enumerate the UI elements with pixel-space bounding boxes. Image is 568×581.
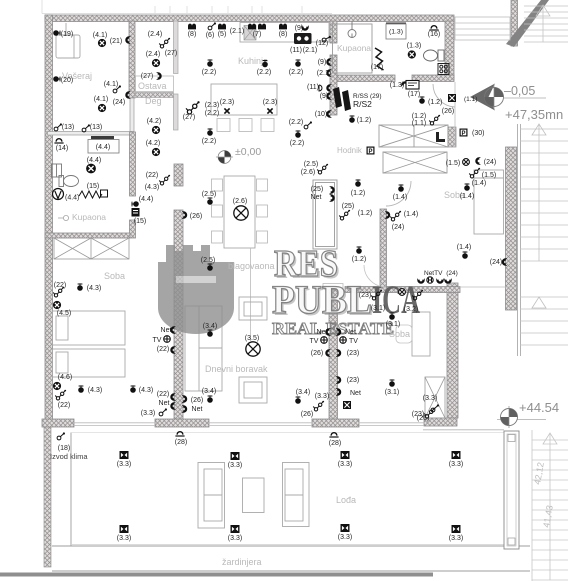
svg-text:Net: Net: [159, 400, 170, 407]
washer veseraj: [56, 23, 80, 58]
svg-text:(1.2): (1.2): [352, 256, 366, 263]
socket (21): [126, 37, 131, 44]
svg-text:(3.3): (3.3): [228, 535, 242, 542]
svg-text:(3.3): (3.3): [338, 534, 352, 541]
svg-text:(3.2): (3.2): [404, 306, 418, 313]
socket (19): [53, 30, 60, 36]
stove symbol (5): [218, 24, 226, 30]
entrance box (1.1): [448, 94, 456, 102]
svg-text:(28): (28): [175, 439, 187, 446]
svg-text:(3.4): (3.4): [202, 388, 216, 395]
svg-text:Dnevni boravak: Dnevni boravak: [205, 364, 268, 374]
svg-text:(26): (26): [301, 411, 313, 418]
kitchen dark sink: [294, 33, 312, 44]
stairs right middle treads: [520, 124, 568, 345]
wall hodnik east: [380, 209, 387, 287]
shower top bath: [333, 22, 373, 74]
svg-text:TV: TV: [153, 337, 162, 344]
svg-text:(25): (25): [342, 203, 354, 210]
loggia left boundary: [70, 433, 72, 547]
svg-text:(4.4): (4.4): [65, 195, 79, 202]
stairs top-right treads: [524, 5, 568, 42]
svg-text:NetTV: NetTV: [424, 270, 443, 277]
living armchair upper: [239, 297, 267, 320]
svg-text:(1.5): (1.5): [446, 160, 460, 167]
svg-text:PUBL: PUBL: [272, 277, 372, 322]
stairs bottom-right: [532, 430, 568, 581]
hodnik wardrobe: [313, 180, 337, 249]
svg-text:Hodnik: Hodnik: [337, 146, 363, 155]
svg-text:(1.4): (1.4): [472, 180, 486, 187]
svg-text:(2.2): (2.2): [202, 69, 216, 76]
loggia light (3.3) r2c3: [341, 524, 350, 532]
svg-text:(4.1): (4.1): [104, 81, 118, 88]
ventilator V left bath: [53, 189, 64, 200]
svg-text:(8): (8): [188, 31, 197, 38]
svg-text:–0,05: –0,05: [504, 84, 535, 98]
balcony sliding door lines: [74, 423, 424, 426]
socket (3.4) living: [207, 329, 213, 336]
svg-text:(2.2): (2.2): [205, 110, 219, 117]
socket (3.1) lower: [389, 379, 395, 386]
socket (1.2) hodnik lower: [356, 246, 362, 253]
svg-text:(15): (15): [134, 218, 146, 225]
wall thin continuation: [130, 98, 134, 132]
svg-text:(27): (27): [165, 50, 177, 57]
wall central upper (soba/dining): [174, 164, 183, 186]
svg-text:Net: Net: [350, 390, 361, 397]
lamp (2.6) dining: [234, 206, 248, 220]
svg-text:Lođa: Lođa: [336, 495, 356, 505]
dining chairs: [212, 179, 268, 243]
loggia sofa right: [283, 463, 310, 527]
wall veseraj/kupaona divider: [48, 132, 132, 136]
svg-text:žardinjera: žardinjera: [222, 557, 262, 567]
socket (3.1) upper: [389, 312, 395, 319]
wall stairwell strip: [511, 0, 518, 46]
svg-text:(2.2): (2.2): [289, 69, 303, 76]
svg-text:(2.5): (2.5): [202, 191, 216, 198]
socket (2.2) island: [207, 128, 213, 135]
svg-text:(3.1): (3.1): [371, 305, 385, 312]
svg-text:Net: Net: [192, 406, 203, 413]
svg-text:(19): (19): [61, 31, 73, 38]
washer top bath: [438, 64, 449, 75]
svg-text:Deg: Deg: [145, 96, 162, 106]
svg-text:Ostava: Ostava: [138, 81, 167, 91]
svg-text:(2.1): (2.1): [303, 47, 317, 54]
socket (2.5) dining upper: [207, 197, 213, 204]
socket (2.5) dining lower: [207, 263, 213, 270]
stove symbols (7): [248, 24, 256, 30]
svg-text:(3.1): (3.1): [386, 321, 400, 328]
switch (18) klima: [57, 432, 65, 440]
switch (13) right: [82, 124, 90, 131]
loggia light (3.3) r1c4: [452, 451, 461, 459]
svg-text:(2.5): (2.5): [201, 257, 215, 264]
island stools: [217, 119, 274, 132]
kitchen counter: [240, 23, 329, 43]
shaft box lower: [383, 152, 447, 173]
shaft black notch: [436, 132, 445, 142]
svg-text:(13): (13): [62, 124, 74, 131]
svg-text:ICA: ICA: [372, 277, 420, 322]
terrace edge line: [458, 286, 517, 288]
svg-text:(3.3): (3.3): [141, 410, 155, 417]
svg-text:(23): (23): [347, 350, 359, 357]
watermark castle icon: [158, 245, 234, 334]
svg-text:(2.2): (2.2): [202, 138, 216, 145]
svg-text:(7): (7): [253, 31, 262, 38]
wall top-right bathroom bottom: [337, 75, 395, 82]
svg-text:(20): (20): [61, 77, 73, 84]
box (1.1) living: [343, 401, 351, 409]
heater box (4.4) veseraj: [88, 136, 119, 153]
svg-text:(17): (17): [408, 91, 420, 98]
svg-text:(26): (26): [190, 213, 202, 220]
svg-text:(2.2): (2.2): [257, 69, 271, 76]
bell (14): [54, 138, 63, 143]
svg-text:Izvod klima: Izvod klima: [50, 452, 88, 461]
svg-text:Net: Net: [345, 329, 356, 336]
living sofa: [185, 306, 222, 391]
svg-text:(1.2): (1.2): [351, 190, 365, 197]
svg-text:(3.3): (3.3): [338, 461, 352, 468]
svg-text:(1.4): (1.4): [460, 193, 474, 200]
svg-text:(26): (26): [311, 350, 323, 357]
svg-text:(3.3): (3.3): [449, 535, 463, 542]
wall left lower thin: [44, 422, 51, 567]
stove symbol (8) left: [188, 24, 196, 30]
desk right soba: [412, 312, 430, 356]
socket (2.2) lowest: [295, 130, 301, 137]
bed left 1: [53, 311, 126, 345]
svg-text:Soba: Soba: [104, 271, 125, 281]
svg-text:(1.1): (1.1): [464, 96, 477, 103]
svg-text:(8): (8): [279, 31, 288, 38]
loggia light (3.3) r2c1: [120, 525, 129, 533]
room labels: [62, 43, 465, 567]
distribution board R/SS parallelogram 1: [333, 87, 342, 108]
wall top outer: [45, 15, 454, 22]
svg-text:(4.3): (4.3): [88, 387, 102, 394]
svg-text:(14): (14): [56, 145, 68, 152]
svg-text:(3.5): (3.5): [245, 335, 259, 342]
svg-text:(23): (23): [359, 292, 371, 299]
lamp (2.4): [152, 59, 160, 67]
svg-text:(2.6): (2.6): [301, 169, 315, 176]
wall kitchen/bath divider vertical: [330, 21, 337, 43]
svg-text:(22): (22): [157, 391, 169, 398]
wall bottom-left foot: [42, 419, 74, 427]
loggia light (3.3) r2c4: [452, 525, 461, 533]
svg-text:(4.1): (4.1): [94, 96, 108, 103]
svg-text:(4.3): (4.3): [145, 184, 159, 191]
kitchen sink hatch: [244, 26, 256, 41]
x-mark (2.3) left: [224, 108, 229, 113]
socket (1.2) rs2: [349, 115, 355, 122]
svg-text:(24): (24): [113, 99, 125, 106]
svg-text:(28): (28): [329, 440, 341, 447]
switch cluster island: [186, 101, 200, 114]
socket (4.3) left: [78, 385, 84, 392]
svg-text:(4.4): (4.4): [96, 144, 110, 151]
svg-text:(4.4): (4.4): [87, 157, 101, 164]
svg-text:(22): (22): [54, 282, 66, 289]
svg-text:(22): (22): [58, 402, 70, 409]
svg-text:(1.5): (1.5): [482, 172, 496, 179]
svg-text:(6): (6): [206, 32, 215, 39]
svg-text:TV: TV: [310, 338, 319, 345]
wall kupaona right upper: [130, 132, 136, 196]
entrance arrow: [470, 84, 495, 111]
(1.3) label box top bath: [386, 23, 406, 40]
svg-text:(3.3): (3.3): [423, 395, 437, 402]
svg-text:(17): (17): [371, 64, 383, 71]
svg-text:(4.5): (4.5): [57, 310, 71, 317]
elevation circle 0,00: [216, 151, 233, 164]
svg-text:(24): (24): [484, 159, 496, 166]
x-mark (2.3) right: [267, 108, 272, 113]
bell (28) right: [329, 432, 338, 437]
lamp (4.5): [53, 301, 61, 309]
socket (20): [53, 76, 60, 82]
wall bedroom right: [447, 283, 458, 418]
switch cluster (1.5): [469, 168, 480, 178]
wall living foot right: [312, 419, 359, 427]
distribution board R/S2 parallelogram 2: [342, 90, 351, 111]
hodnik-soba door arc: [386, 181, 411, 206]
svg-text:+47,35mn: +47,35mn: [505, 107, 563, 122]
svg-text:(2.6): (2.6): [233, 198, 247, 205]
svg-text:(30): (30): [472, 130, 484, 137]
svg-text:Net: Net: [161, 327, 172, 334]
switch (13) left: [54, 123, 62, 130]
socket (2.2) kitchen b: [262, 60, 268, 67]
socket (1.4) soba top-right: [464, 183, 470, 190]
wardrobe soba left (x-box): [54, 238, 129, 259]
svg-text:Kupaona: Kupaona: [72, 212, 106, 222]
box (17): [406, 81, 419, 90]
wall bedroom top band: [345, 287, 460, 293]
svg-text:(3.4): (3.4): [296, 389, 310, 396]
svg-text:(4.3): (4.3): [139, 387, 153, 394]
bracket (26) wall dining: [182, 212, 187, 219]
toilet left bath: [59, 176, 79, 187]
lamp (4.2) deg lower: [152, 148, 160, 156]
svg-text:(1.2): (1.2): [358, 210, 372, 217]
svg-text:±0,00: ±0,00: [235, 146, 261, 158]
dining table: [224, 176, 255, 248]
toilet top bath: [424, 50, 445, 61]
svg-text:(2.3): (2.3): [205, 102, 219, 109]
bed top-right soba: [474, 170, 504, 234]
svg-text:(5): (5): [218, 31, 227, 38]
svg-text:(3.3): (3.3): [228, 462, 242, 469]
loggia light (3.3) r1c3: [341, 451, 350, 459]
svg-text:(4.1): (4.1): [93, 32, 107, 39]
lamp (1.5): [463, 159, 470, 166]
svg-text:(27): (27): [141, 73, 153, 80]
living armchair lower: [239, 377, 267, 403]
svg-text:(2.4): (2.4): [148, 31, 162, 38]
left soba switch cluster top: [53, 287, 64, 297]
svg-text:REAL ESTATE: REAL ESTATE: [272, 319, 394, 338]
svg-text:(13): (13): [90, 124, 102, 131]
svg-text:Soba: Soba: [389, 329, 410, 339]
svg-text:(11): (11): [290, 47, 302, 54]
wall left outer: [45, 15, 53, 422]
stairs right rail lines: [518, 124, 521, 356]
socket (2.2) kitchen a: [207, 59, 213, 66]
top dimension line: [42, 0, 332, 14]
svg-text:Net: Net: [311, 194, 322, 201]
svg-text:(4.2): (4.2): [147, 118, 161, 125]
elevation circle 44,54: [501, 406, 518, 428]
svg-text:(16): (16): [428, 31, 440, 38]
svg-text:(22): (22): [146, 172, 158, 179]
svg-text:(26): (26): [191, 397, 203, 404]
svg-text:(1.1): (1.1): [412, 120, 426, 127]
socket (24) veseraj: [126, 92, 131, 99]
svg-text:(10): (10): [315, 111, 327, 118]
switch (2.4) ostava: [159, 38, 170, 48]
svg-text:(1.3): (1.3): [407, 43, 421, 50]
entrance socket (1.2): [419, 96, 425, 103]
svg-text:(11): (11): [307, 84, 319, 91]
loggia table: [243, 478, 265, 513]
svg-text:(9): (9): [318, 59, 327, 66]
svg-text:(2.2): (2.2): [289, 119, 303, 126]
svg-text:Kupaona: Kupaona: [337, 43, 371, 53]
wall right outer: [506, 147, 517, 310]
svg-text:(3.3): (3.3): [117, 461, 131, 468]
svg-text:(22): (22): [157, 346, 169, 353]
wall living/soba right: [329, 290, 338, 419]
mirror cabinet left bath: [52, 164, 62, 177]
box (15) wall: [132, 208, 140, 217]
bed left 2: [53, 349, 126, 377]
bell (28) left: [175, 431, 184, 436]
svg-text:(2.1): (2.1): [230, 28, 244, 35]
svg-text:(3.3): (3.3): [449, 461, 463, 468]
svg-text:(24): (24): [446, 270, 458, 277]
door mark kupaona: [58, 215, 69, 220]
svg-text:(4.4): (4.4): [139, 196, 153, 203]
loggia light (3.3) r2c2: [231, 525, 240, 533]
shaft hatch strip: [448, 127, 456, 147]
svg-text:(4.3): (4.3): [87, 285, 101, 292]
entrance side line: [454, 82, 456, 147]
wardrobe right soba x-box: [425, 377, 445, 418]
bottom grey band: [0, 573, 433, 577]
svg-text:(21): (21): [110, 38, 122, 45]
stairs top flight: [455, 17, 510, 40]
svg-text:(3.4): (3.4): [203, 323, 217, 330]
svg-text:(1.2): (1.2): [428, 99, 442, 106]
wall central foot: [155, 419, 209, 427]
svg-text:(4.2): (4.2): [146, 140, 160, 147]
svg-text:(26): (26): [417, 415, 429, 422]
svg-text:blagovaona: blagovaona: [228, 261, 275, 271]
svg-text:(2.2): (2.2): [290, 140, 304, 147]
svg-text:R/S2: R/S2: [353, 99, 372, 109]
switch (4.1): [113, 85, 121, 93]
svg-text:(1.4): (1.4): [393, 194, 407, 201]
svg-text:(3.3): (3.3): [117, 535, 131, 542]
svg-text:(26): (26): [442, 108, 454, 115]
entrance door arc: [433, 84, 455, 107]
svg-text:(2.3): (2.3): [220, 99, 234, 106]
svg-text:(2.5): (2.5): [304, 161, 318, 168]
wall ostava right thin: [174, 21, 179, 74]
svg-text:TV: TV: [349, 338, 358, 345]
switch cluster (22) bottom: [55, 390, 66, 400]
wall central lower: [174, 210, 183, 419]
loggia right column: [504, 431, 519, 549]
bracket (24) top: [476, 158, 481, 165]
elevation circle entrance: [485, 84, 504, 110]
svg-text:(1.4): (1.4): [404, 211, 418, 218]
loggia sofa left: [198, 463, 225, 529]
svg-text:(4.6): (4.6): [58, 374, 72, 381]
socket (3.4) living right: [295, 396, 301, 403]
radiator box: [101, 190, 108, 197]
heater (17) zigzag: [375, 48, 384, 70]
loggia light (3.3) r1c2: [231, 452, 240, 460]
kitchen island: [211, 84, 277, 115]
svg-text:(1.2): (1.2): [412, 113, 426, 120]
svg-text:(23): (23): [347, 377, 359, 384]
svg-text:(2.3): (2.3): [263, 99, 277, 106]
wall veseraj/kitchen: [129, 21, 135, 98]
shaft box upper: [379, 125, 448, 147]
svg-text:(1.2): (1.2): [357, 117, 371, 124]
lamp (4.4) bath left: [86, 164, 96, 174]
lamp (4.2) deg upper: [152, 126, 160, 134]
lamp (4.1) top: [98, 39, 106, 47]
door threshold living-hodnik: [323, 284, 343, 290]
svg-text:(3.1): (3.1): [385, 389, 399, 396]
socket (1.2) hodnik top: [355, 179, 361, 186]
lamp (4.1) lower: [98, 104, 106, 112]
bell (16): [429, 25, 438, 30]
stove symbol (8) right: [279, 24, 287, 30]
socket (3.4) living low: [182, 396, 187, 403]
svg-text:(27): (27): [183, 114, 195, 121]
stair stringer diagonal: [506, 0, 549, 47]
svg-text:(15): (15): [87, 183, 99, 190]
svg-text:(18): (18): [58, 445, 70, 452]
svg-text:(24): (24): [392, 224, 404, 231]
socket (2.2) kitchen c: [295, 59, 301, 66]
socket (4.3) right: [130, 385, 136, 392]
soba door arc lower: [364, 265, 386, 287]
desk chair right soba: [396, 325, 412, 343]
svg-text:(1.3): (1.3): [389, 29, 403, 36]
lamp (3.5) living: [246, 342, 260, 356]
radiator zigzag (15): [79, 191, 102, 198]
loggia light (3.3) r1c1: [120, 451, 129, 459]
switch (6): [208, 22, 216, 30]
svg-text:(24): (24): [490, 259, 502, 266]
wall top-right bathroom right: [445, 21, 454, 80]
wall kupaona/soba divider: [45, 233, 130, 238]
wall kupaona right lower: [130, 220, 136, 238]
svg-text:(1.4): (1.4): [457, 244, 471, 251]
zardinjera band: [52, 545, 530, 547]
svg-text:(3.3): (3.3): [315, 393, 329, 400]
